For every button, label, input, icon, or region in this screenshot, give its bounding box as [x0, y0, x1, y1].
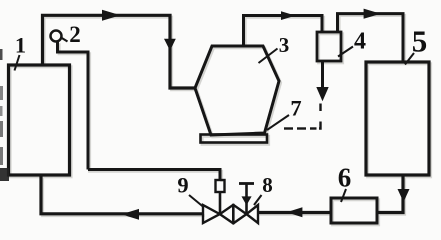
svg-text:9: 9 [177, 173, 188, 198]
svg-text:7: 7 [290, 96, 301, 121]
svg-text:8: 8 [262, 173, 273, 197]
svg-text:3: 3 [279, 33, 290, 57]
svg-text:1: 1 [15, 33, 26, 58]
svg-text:4: 4 [354, 29, 366, 55]
svg-text:6: 6 [338, 163, 352, 193]
svg-text:5: 5 [412, 24, 428, 59]
svg-text:2: 2 [69, 22, 81, 47]
